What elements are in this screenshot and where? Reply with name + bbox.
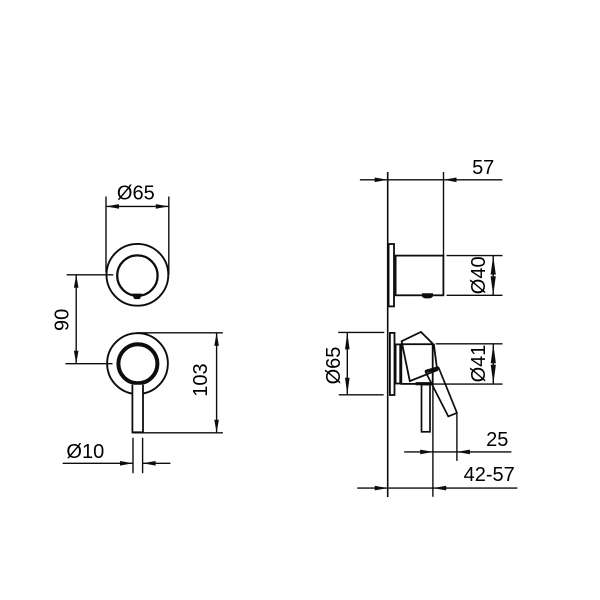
svg-text:Ø41: Ø41: [468, 345, 490, 383]
dimension 90: dimension line: [75, 275, 77, 364]
dimension 90: up arrow: [74, 275, 79, 288]
dimension Ø65 (side): bottom leader: [339, 394, 384, 396]
svg-text:Ø40: Ø40: [468, 256, 490, 294]
front view: top bezel stop tab: [132, 294, 142, 300]
dimension 42-57: dimension line: [357, 487, 517, 489]
side view: top body stop tab: [422, 293, 433, 298]
extension line at tilted lever tip (for 25): [456, 414, 458, 461]
dimension 25: left arrow: [420, 450, 433, 455]
side view: knob face bold segment: [416, 382, 433, 385]
dimension Ø41: bottom leader: [433, 383, 503, 385]
dimension 103: dimension line: [216, 333, 218, 433]
side view: top trim plate flange: [389, 244, 394, 306]
svg-text:57: 57: [472, 157, 494, 179]
dimension Ø41: top leader: [436, 343, 503, 345]
extension line at knob front edge (for 25 and 42-57): [432, 384, 434, 497]
side view: wall line: [387, 172, 389, 497]
svg-text:25: 25: [486, 429, 508, 451]
svg-text:Ø65: Ø65: [323, 347, 345, 385]
dimension Ø65 (front top): dimension line: [106, 205, 169, 207]
dimension 90: down arrow: [74, 351, 79, 364]
dimension 57: dimension line: [360, 179, 502, 181]
dimension 103: top leader line: [137, 332, 223, 334]
svg-text:Ø10: Ø10: [66, 441, 104, 463]
side view: bottom adapter body: [396, 344, 401, 383]
dimension 57: right arrow: [444, 178, 457, 183]
svg-text:90: 90: [51, 309, 73, 331]
front view: handle collar bold ring: [118, 344, 157, 383]
svg-text:Ø65: Ø65: [117, 182, 155, 204]
front view: lever handle Ø10: [132, 385, 143, 433]
side view: tilted lever: [426, 368, 457, 416]
dimension 90: bottom leader line: [65, 363, 112, 365]
dimension Ø10: right tail line: [143, 462, 171, 464]
dimension Ø65 (side): top leader: [338, 331, 384, 333]
dimension Ø40: down arrow: [491, 276, 496, 295]
dimension Ø40: dimension line: [492, 256, 494, 296]
dimension Ø10: left tail line: [63, 462, 133, 464]
dimension Ø65 (side): dimension line: [346, 332, 348, 394]
dimension Ø65 (front top): extension lines: [106, 197, 169, 275]
front view: bottom trim plate outer circle: [107, 333, 168, 394]
dimension 103: down arrow: [214, 420, 219, 433]
dimension Ø10: extension lines: [133, 438, 143, 473]
dimension 25: dimension line: [404, 451, 511, 453]
dimension 25: right arrow: [457, 450, 470, 455]
dimension 57: right extension line: [443, 172, 445, 256]
dimension Ø65 (front top): right arrow: [156, 204, 169, 209]
side view: vertical lever (down position): [422, 385, 431, 432]
svg-text:103: 103: [190, 363, 212, 396]
svg-text:42-57: 42-57: [464, 464, 515, 486]
dimension 103: bottom leader line: [132, 432, 223, 434]
dimension Ø10: left arrow: [120, 461, 133, 466]
side view: tilted handle knob pentagon: [402, 332, 438, 381]
dimension Ø40: up arrow: [491, 256, 496, 275]
dimension 103: up arrow: [214, 333, 219, 346]
side view: lever root thick edge: [425, 368, 439, 372]
dimension Ø40: top leader: [447, 255, 503, 257]
side view: top valve body: [396, 256, 444, 296]
dimension Ø65 (front top): left arrow: [106, 204, 119, 209]
dimension Ø65 (side): up arrow: [345, 332, 350, 349]
dimension 42-57: right arrow: [433, 486, 446, 491]
side view: handle knob square (rest position): [401, 344, 432, 384]
dimension 42-57: left arrow: [375, 486, 388, 491]
dimension Ø41: down arrow: [491, 365, 496, 384]
dimension Ø40: bottom leader: [447, 294, 503, 296]
front view: top cartridge bezel inner circle: [117, 255, 157, 295]
dimension Ø41: up arrow: [491, 344, 496, 363]
dimension Ø65 (side): down arrow: [345, 378, 350, 395]
dimension 57: left arrow: [375, 178, 388, 183]
dimension Ø41: dimension line: [492, 344, 494, 384]
front view: top trim plate outer circle (Ø65): [106, 244, 168, 306]
dimension 90: top leader line: [67, 274, 114, 276]
dimension Ø10: right arrow: [143, 461, 156, 466]
side view: bottom trim plate flange: [390, 333, 395, 395]
